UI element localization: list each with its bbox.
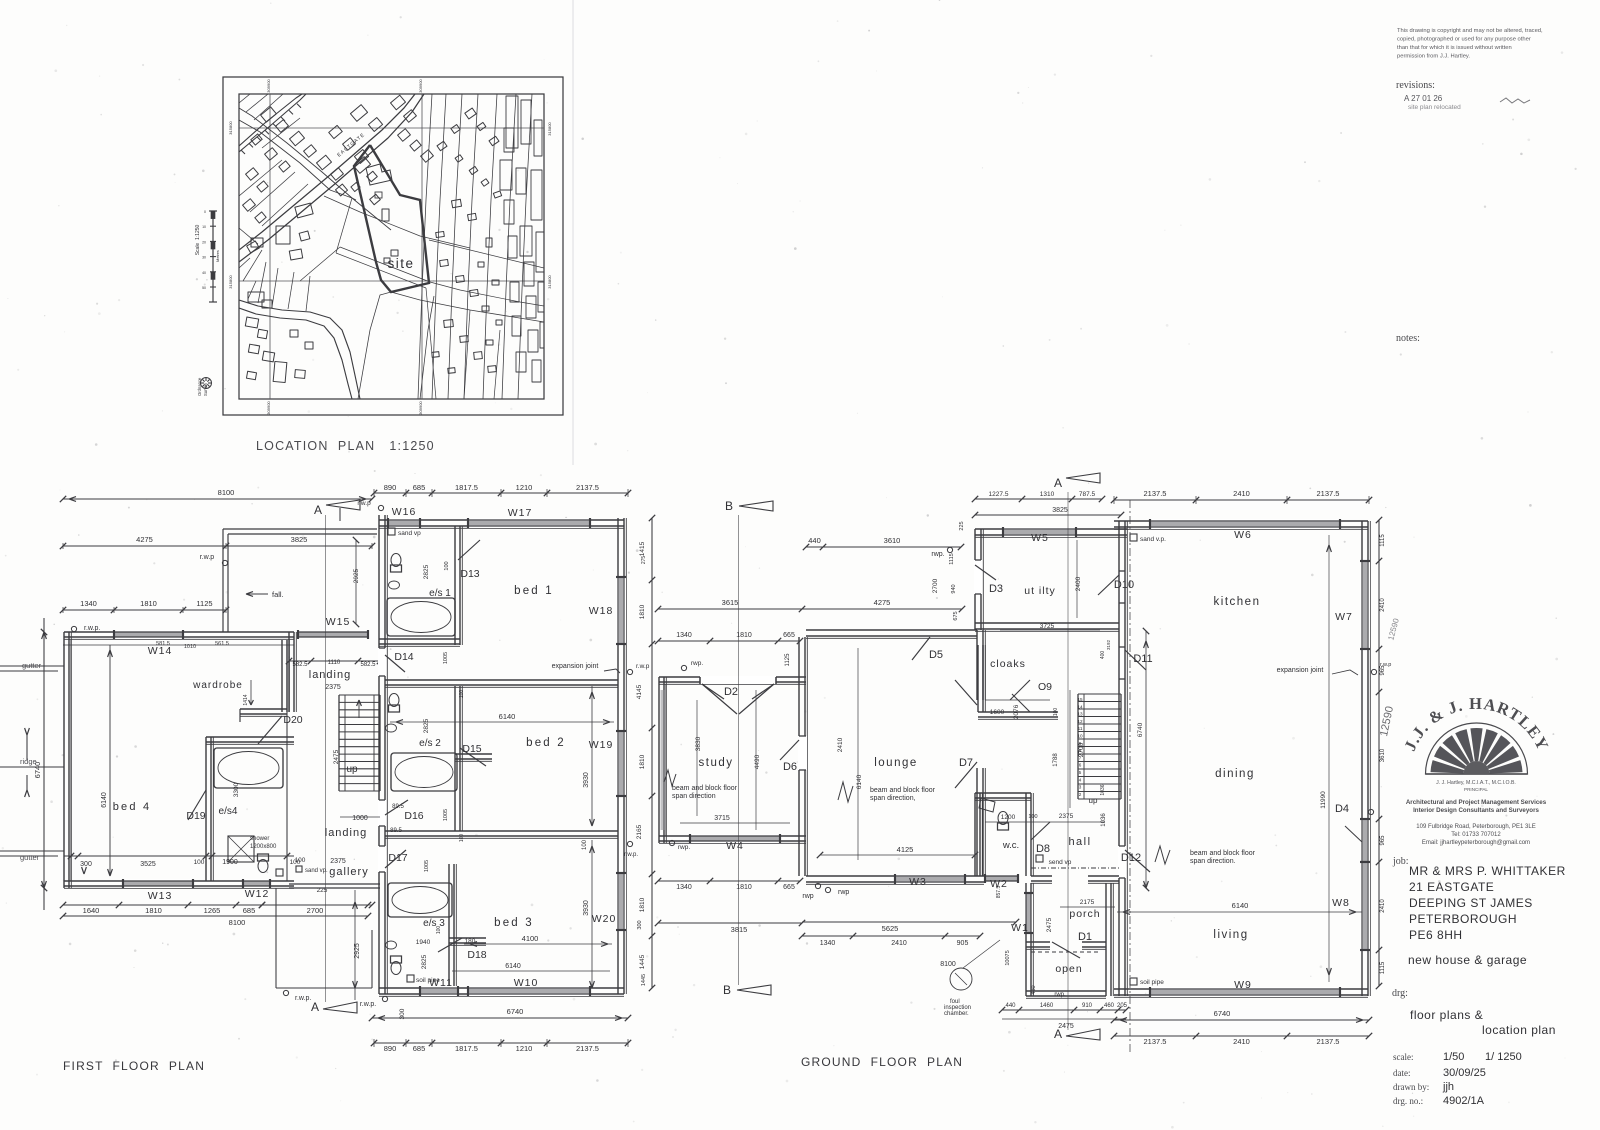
svg-text:11: 11 bbox=[1078, 726, 1083, 731]
svg-text:3725: 3725 bbox=[1040, 623, 1055, 630]
ffp door D18 bbox=[438, 938, 462, 952]
svg-text:1115: 1115 bbox=[949, 553, 955, 564]
svg-text:2925: 2925 bbox=[353, 568, 360, 583]
ffp W14 window bbox=[114, 630, 183, 639]
ffp e/s4 shower bbox=[228, 836, 254, 862]
ffp stairs up bbox=[338, 695, 340, 791]
svg-text:309900: 309900 bbox=[266, 401, 271, 415]
svg-text:2375: 2375 bbox=[1059, 813, 1074, 820]
svg-text:W20: W20 bbox=[592, 913, 617, 925]
svg-text:copied, photographed or used f: copied, photographed or used for any pur… bbox=[1397, 37, 1531, 43]
ffp dim row 1340 1810 1125 bbox=[63, 609, 226, 611]
svg-text:205: 205 bbox=[1117, 1003, 1128, 1009]
ffp fall arrow bbox=[246, 592, 253, 594]
gfp door D2 double doors bbox=[700, 676, 776, 684]
svg-text:8100: 8100 bbox=[229, 918, 246, 927]
svg-text:3930: 3930 bbox=[583, 772, 590, 788]
ffp W12 window bbox=[243, 879, 270, 888]
svg-text:W13: W13 bbox=[148, 890, 173, 902]
svg-text:100: 100 bbox=[459, 834, 465, 843]
svg-text:965: 965 bbox=[1380, 835, 1386, 846]
svg-text:r.w.p: r.w.p bbox=[1380, 662, 1391, 668]
svg-text:4490: 4490 bbox=[754, 754, 761, 769]
svg-text:3610: 3610 bbox=[884, 536, 901, 545]
location plan inner map frame bbox=[239, 94, 544, 399]
gfp door D7 bbox=[955, 680, 977, 705]
svg-text:300: 300 bbox=[399, 1008, 406, 1019]
gfp door D10 bbox=[1118, 571, 1126, 603]
ffp wall bed2/bed3 bbox=[385, 830, 618, 832]
svg-text:cloaks: cloaks bbox=[990, 658, 1026, 670]
svg-text:2825: 2825 bbox=[421, 954, 428, 969]
svg-text:B: B bbox=[725, 499, 733, 513]
gfp right wall rwp circles bbox=[1371, 669, 1376, 674]
gfp window W1 bbox=[1024, 893, 1033, 933]
ffp top dim row 8100 bbox=[63, 498, 372, 500]
ffp annex flat roof outline bbox=[222, 529, 224, 632]
svg-text:r.w.p: r.w.p bbox=[357, 500, 371, 507]
svg-text:1414: 1414 bbox=[243, 694, 249, 705]
svg-text:A 27 01 26: A 27 01 26 bbox=[1404, 94, 1443, 103]
houses mid-left cluster bbox=[295, 203, 313, 218]
svg-text:D15: D15 bbox=[462, 743, 481, 755]
ffp bottom dim 6740 bbox=[372, 1017, 628, 1019]
svg-text:2475: 2475 bbox=[1058, 1023, 1074, 1030]
svg-text:665: 665 bbox=[783, 632, 795, 639]
svg-text:new house & garage: new house & garage bbox=[1408, 953, 1527, 967]
svg-text:DEEPING ST JAMES: DEEPING ST JAMES bbox=[1409, 896, 1533, 910]
svg-text:5: 5 bbox=[1079, 770, 1082, 775]
svg-text:D6: D6 bbox=[783, 761, 797, 773]
svg-text:soil pipe: soil pipe bbox=[1140, 979, 1164, 986]
curved road bottom-left bbox=[239, 300, 360, 399]
svg-text:revisions:: revisions: bbox=[1396, 80, 1435, 91]
svg-text:6140: 6140 bbox=[101, 792, 108, 808]
svg-text:12: 12 bbox=[1077, 719, 1083, 724]
svg-text:1/50: 1/50 bbox=[1443, 1051, 1464, 1063]
ffp wardrobe walls bbox=[281, 640, 283, 712]
svg-text:1115: 1115 bbox=[1380, 534, 1386, 547]
gfp wc walls bbox=[974, 793, 976, 876]
svg-text:4100: 4100 bbox=[522, 934, 539, 943]
svg-text:site: site bbox=[387, 256, 414, 271]
ffp top dim row right 890 685 1817.5 1210 2137.5 bbox=[374, 492, 628, 494]
svg-text:13: 13 bbox=[1077, 712, 1083, 717]
svg-text:1788: 1788 bbox=[1053, 753, 1059, 767]
gfp sand vp top bbox=[1130, 534, 1137, 541]
svg-text:20: 20 bbox=[202, 240, 206, 244]
svg-text:2137.5: 2137.5 bbox=[1144, 1037, 1167, 1046]
svg-text:living: living bbox=[1213, 929, 1248, 941]
svg-text:rwp.: rwp. bbox=[678, 844, 690, 851]
svg-text:2410: 2410 bbox=[1380, 899, 1386, 913]
svg-text:4: 4 bbox=[1079, 777, 1082, 782]
svg-text:W16: W16 bbox=[392, 506, 417, 518]
svg-text:W17: W17 bbox=[508, 507, 533, 519]
svg-text:permission from J.J. Hartley.: permission from J.J. Hartley. bbox=[1397, 54, 1470, 60]
svg-text:3830: 3830 bbox=[695, 736, 702, 751]
svg-text:905: 905 bbox=[957, 940, 969, 947]
ffp void below gallery outline bbox=[275, 888, 277, 988]
svg-text:582.5: 582.5 bbox=[360, 662, 376, 668]
svg-text:sand vp: sand vp bbox=[398, 530, 421, 537]
ffp section line A-A bbox=[325, 515, 327, 1002]
svg-text:J. J. Hartley, M.C.I.A.T., M.C: J. J. Hartley, M.C.I.A.T., M.C.I.O.B. bbox=[1436, 780, 1516, 786]
svg-text:3610: 3610 bbox=[1380, 748, 1386, 762]
svg-text:6140: 6140 bbox=[499, 712, 516, 721]
ffp door D15 bbox=[460, 748, 486, 766]
svg-text:910: 910 bbox=[1082, 1003, 1093, 1009]
gfp window W3 bbox=[895, 874, 965, 884]
gfp window W5 bbox=[1003, 527, 1076, 537]
svg-text:LOCATION PLAN 1:1250: LOCATION PLAN 1:1250 bbox=[256, 439, 435, 453]
svg-text:D11: D11 bbox=[1133, 653, 1152, 665]
svg-text:W9: W9 bbox=[1234, 979, 1252, 991]
svg-text:up: up bbox=[1089, 796, 1098, 805]
svg-text:1445: 1445 bbox=[641, 974, 647, 986]
svg-text:Architectural and Project Mana: Architectural and Project Management Ser… bbox=[1406, 799, 1547, 806]
svg-text:r.w.p: r.w.p bbox=[200, 554, 215, 561]
svg-text:2410: 2410 bbox=[1233, 489, 1250, 498]
svg-text:1036: 1036 bbox=[1101, 813, 1107, 827]
svg-text:109 Fulbridge Road, Peterborou: 109 Fulbridge Road, Peterborough, PE1 3L… bbox=[1416, 824, 1535, 830]
svg-text:e/s4: e/s4 bbox=[219, 806, 238, 817]
gfp interior dim 6740 vertical bbox=[1145, 631, 1147, 888]
svg-text:100: 100 bbox=[444, 561, 450, 570]
svg-text:landing: landing bbox=[325, 827, 367, 839]
svg-text:W18: W18 bbox=[589, 605, 614, 617]
ffp door D17 bbox=[378, 846, 386, 872]
svg-text:floor plans &: floor plans & bbox=[1410, 1008, 1483, 1022]
svg-text:FIRST FLOOR PLAN: FIRST FLOOR PLAN bbox=[63, 1059, 205, 1073]
svg-text:W5: W5 bbox=[1031, 532, 1049, 544]
svg-text:2137.5: 2137.5 bbox=[576, 1044, 599, 1053]
ffp left roof-plan lines (garage edge) bbox=[0, 665, 64, 667]
svg-text:4275: 4275 bbox=[874, 598, 891, 607]
ffp sand vp near e/s1 bbox=[388, 528, 395, 535]
svg-text:1125: 1125 bbox=[785, 653, 791, 667]
gfp kitchen dining living outer walls bbox=[1118, 521, 1120, 996]
svg-text:3930: 3930 bbox=[583, 900, 590, 916]
svg-text:1445: 1445 bbox=[639, 954, 646, 969]
svg-text:1460: 1460 bbox=[1040, 1003, 1054, 1009]
svg-text:r.w.p.: r.w.p. bbox=[360, 1001, 376, 1008]
svg-text:309900: 309900 bbox=[266, 79, 271, 93]
gfp stairs bbox=[1077, 694, 1079, 799]
ffp wall bed1/bed2 bbox=[385, 679, 618, 681]
svg-text:1/ 1250: 1/ 1250 bbox=[1485, 1051, 1522, 1063]
gfp bottom dim 6740 bbox=[1114, 1019, 1369, 1021]
gfp window W4 bbox=[690, 834, 780, 843]
svg-text:bed 2: bed 2 bbox=[526, 737, 566, 749]
scan artifacts bbox=[517, 169, 519, 171]
svg-text:309900: 309900 bbox=[418, 79, 423, 93]
svg-text:PRINCIPAL: PRINCIPAL bbox=[1464, 787, 1488, 792]
svg-text:D17: D17 bbox=[388, 852, 407, 864]
svg-text:400: 400 bbox=[1100, 651, 1106, 660]
svg-text:1227.5: 1227.5 bbox=[989, 491, 1009, 498]
svg-text:1115: 1115 bbox=[1380, 961, 1386, 974]
ffp door D16 bbox=[378, 800, 386, 826]
svg-text:3825: 3825 bbox=[291, 535, 308, 544]
svg-text:D20: D20 bbox=[283, 714, 302, 726]
svg-text:2175: 2175 bbox=[1080, 899, 1095, 906]
gfp utility walls bbox=[974, 529, 976, 630]
svg-text:89.5: 89.5 bbox=[392, 804, 404, 810]
svg-text:open: open bbox=[1055, 963, 1082, 975]
svg-text:1810: 1810 bbox=[639, 897, 646, 912]
ffp e/s1 south wall bbox=[379, 638, 460, 640]
gfp door D5 bbox=[912, 637, 930, 660]
svg-text:2137.5: 2137.5 bbox=[1144, 489, 1167, 498]
svg-text:1210: 1210 bbox=[516, 1044, 533, 1053]
ffp e/s4 toilet bbox=[258, 860, 268, 873]
svg-text:8100: 8100 bbox=[218, 488, 235, 497]
location plan outer border bbox=[223, 77, 563, 415]
svg-text:bed 3: bed 3 bbox=[494, 917, 534, 929]
svg-text:bed 1: bed 1 bbox=[514, 585, 554, 597]
buildings top-middle houses bbox=[350, 105, 367, 122]
svg-text:561.5: 561.5 bbox=[215, 641, 229, 647]
svg-text:rwp.: rwp. bbox=[691, 660, 703, 667]
svg-text:D10: D10 bbox=[1114, 579, 1134, 591]
gfp study-lounge wall bbox=[798, 637, 800, 876]
svg-text:1005: 1005 bbox=[424, 860, 430, 872]
svg-text:2700: 2700 bbox=[932, 578, 939, 593]
svg-text:landing: landing bbox=[309, 669, 351, 681]
svg-text:drg. no.:: drg. no.: bbox=[1393, 1096, 1423, 1106]
gfp drainage dash-dot line bbox=[1129, 500, 1131, 1055]
svg-text:460: 460 bbox=[1104, 1003, 1115, 1009]
svg-text:581.5: 581.5 bbox=[156, 641, 170, 647]
svg-text:soil pipe: soil pipe bbox=[416, 977, 440, 984]
svg-text:expansion joint: expansion joint bbox=[552, 663, 599, 670]
site small building bbox=[384, 258, 390, 263]
ffp main block outer walls bbox=[378, 515, 380, 994]
svg-text:D4: D4 bbox=[1335, 803, 1349, 815]
svg-text:O9: O9 bbox=[1038, 681, 1052, 693]
svg-text:fall.: fall. bbox=[272, 590, 284, 599]
svg-text:15: 15 bbox=[1077, 697, 1083, 702]
svg-text:40: 40 bbox=[202, 271, 206, 275]
svg-text:1005: 1005 bbox=[443, 809, 449, 821]
svg-text:A: A bbox=[1054, 476, 1062, 490]
svg-text:rwp.: rwp. bbox=[931, 551, 944, 558]
field boundary lines centre bbox=[330, 190, 356, 200]
gfp cloaks walls bbox=[977, 645, 979, 712]
svg-text:date:: date: bbox=[1393, 1068, 1411, 1078]
plot boundary lines left of road bbox=[239, 94, 250, 103]
ffp left vertical dim 6740 bbox=[43, 618, 45, 910]
ffp window W10 bbox=[468, 986, 590, 996]
svg-text:225: 225 bbox=[959, 521, 965, 530]
gfp study outer walls bbox=[658, 677, 660, 843]
svg-text:1415: 1415 bbox=[639, 541, 646, 556]
svg-text:A: A bbox=[314, 503, 322, 517]
svg-text:1200x800: 1200x800 bbox=[250, 844, 277, 850]
railway lines top-left bbox=[239, 94, 302, 146]
ffp dim row 4275 3825 bbox=[63, 545, 372, 547]
svg-text:21 EASTGATE: 21 EASTGATE bbox=[1409, 880, 1494, 894]
ffp bottom dim row 890 685 1817.5 1210 2137.5 bbox=[374, 1042, 628, 1044]
svg-text:11990: 11990 bbox=[1320, 791, 1327, 809]
right side long plots bbox=[418, 94, 432, 399]
svg-text:6140: 6140 bbox=[856, 774, 863, 789]
svg-text:hall: hall bbox=[1068, 836, 1091, 848]
svg-text:D18: D18 bbox=[467, 949, 486, 961]
gfp door D6 bbox=[798, 736, 807, 770]
svg-text:2475: 2475 bbox=[1046, 917, 1053, 932]
svg-text:890: 890 bbox=[384, 1044, 397, 1053]
svg-text:2137.5: 2137.5 bbox=[576, 483, 599, 492]
ffp window W17 bbox=[468, 518, 590, 528]
ffp right dim column bbox=[651, 518, 653, 988]
gfp study west wall glazing bbox=[661, 690, 665, 830]
svg-text:2375: 2375 bbox=[330, 858, 346, 865]
svg-text:2400: 2400 bbox=[1075, 576, 1082, 591]
svg-text:12590: 12590 bbox=[1378, 705, 1396, 737]
svg-text:PE6 8HH: PE6 8HH bbox=[1409, 928, 1463, 942]
site boundary bold polygon bbox=[354, 145, 429, 292]
grid lines bbox=[269, 94, 271, 399]
svg-text:sand v.p.: sand v.p. bbox=[1140, 536, 1166, 543]
svg-text:12590: 12590 bbox=[1386, 617, 1401, 641]
ffp window W15 bbox=[298, 630, 368, 639]
svg-text:6740: 6740 bbox=[507, 1007, 524, 1016]
svg-text:1340: 1340 bbox=[676, 632, 692, 639]
svg-text:2410: 2410 bbox=[837, 737, 844, 752]
gfp hall south wall bbox=[1031, 875, 1052, 877]
svg-text:D13: D13 bbox=[460, 568, 479, 580]
svg-text:2700: 2700 bbox=[1078, 742, 1085, 757]
svg-text:scale:: scale: bbox=[1393, 1052, 1414, 1062]
svg-text:D1: D1 bbox=[1078, 931, 1092, 943]
svg-text:3300: 3300 bbox=[233, 782, 240, 797]
svg-text:A: A bbox=[311, 1000, 319, 1014]
svg-text:D5: D5 bbox=[929, 649, 943, 661]
svg-text:4275: 4275 bbox=[136, 535, 153, 544]
svg-text:D12: D12 bbox=[1121, 852, 1141, 864]
svg-text:PETERBOROUGH: PETERBOROUGH bbox=[1409, 912, 1517, 926]
svg-text:1125: 1125 bbox=[196, 599, 212, 608]
ffp W13 window bbox=[123, 879, 193, 888]
svg-text:3: 3 bbox=[1079, 785, 1082, 790]
right side terraced houses bbox=[506, 96, 518, 148]
svg-text:Survey: Survey bbox=[203, 382, 208, 396]
svg-text:D7: D7 bbox=[959, 757, 973, 769]
svg-text:e/s 2: e/s 2 bbox=[419, 738, 441, 749]
svg-text:1817.5: 1817.5 bbox=[455, 483, 478, 492]
svg-text:This drawing is copyright and: This drawing is copyright and may not be… bbox=[1397, 28, 1543, 34]
svg-text:r.w.p.: r.w.p. bbox=[84, 625, 100, 632]
gfp door D11 bbox=[1118, 647, 1126, 679]
svg-text:1640: 1640 bbox=[83, 906, 100, 915]
svg-text:chamber.: chamber. bbox=[944, 1011, 969, 1017]
svg-text:1810: 1810 bbox=[140, 599, 157, 608]
svg-text:drg:: drg: bbox=[1392, 988, 1408, 999]
svg-text:2076: 2076 bbox=[1013, 704, 1020, 719]
svg-text:MR & MRS P. WHITTAKER: MR & MRS P. WHITTAKER bbox=[1409, 864, 1566, 878]
svg-text:100: 100 bbox=[295, 857, 306, 864]
gfp send vp dashline bbox=[1031, 867, 1119, 869]
svg-text:10: 10 bbox=[1077, 734, 1083, 739]
svg-text:6740: 6740 bbox=[1137, 722, 1144, 737]
svg-text:shower: shower bbox=[250, 836, 269, 842]
ffp landing dims 582.5 1110 582.5 bbox=[289, 660, 380, 662]
svg-text:0: 0 bbox=[204, 210, 206, 214]
svg-text:D14: D14 bbox=[394, 651, 413, 663]
svg-text:rwp: rwp bbox=[802, 893, 813, 900]
svg-text:315800: 315800 bbox=[547, 122, 552, 136]
svg-text:440: 440 bbox=[1005, 1003, 1016, 1009]
ffp door D14 bbox=[378, 648, 386, 676]
svg-text:2410: 2410 bbox=[1380, 598, 1386, 612]
svg-text:1900: 1900 bbox=[222, 859, 238, 866]
ffp door D13 bbox=[458, 540, 480, 560]
svg-text:bed 4: bed 4 bbox=[113, 801, 152, 813]
svg-text:site plan relocated: site plan relocated bbox=[1408, 104, 1461, 111]
svg-text:2825: 2825 bbox=[423, 564, 430, 579]
svg-text:W7: W7 bbox=[1335, 611, 1353, 623]
ffp central core walls bbox=[288, 632, 290, 712]
ffp left wing outer walls bbox=[63, 632, 65, 888]
gfp open area below porch bbox=[1025, 947, 1027, 996]
svg-text:10075: 10075 bbox=[1005, 950, 1011, 965]
svg-text:1210: 1210 bbox=[516, 483, 533, 492]
svg-text:w.c.: w.c. bbox=[1002, 840, 1019, 851]
svg-text:2410: 2410 bbox=[891, 940, 907, 947]
svg-text:1940: 1940 bbox=[416, 939, 431, 946]
svg-text:Scale 1:1250: Scale 1:1250 bbox=[195, 224, 201, 255]
svg-text:3715: 3715 bbox=[714, 815, 730, 822]
ffp rwp top left bbox=[71, 626, 76, 631]
ffp bed2 interior dims bbox=[390, 721, 614, 723]
svg-text:1810: 1810 bbox=[639, 754, 646, 769]
svg-text:D2: D2 bbox=[724, 686, 738, 698]
svg-text:Ordnance: Ordnance bbox=[197, 377, 202, 396]
svg-text:gallery: gallery bbox=[329, 866, 368, 878]
svg-text:8100: 8100 bbox=[940, 961, 956, 968]
ffp e/s3 stub wall bbox=[449, 937, 486, 939]
svg-text:sand vp.: sand vp. bbox=[305, 868, 328, 874]
gfp door D4 bbox=[1360, 819, 1370, 862]
gfp bottom dim rows bbox=[658, 880, 800, 882]
gfp window W2 bbox=[985, 874, 1018, 883]
ffp left wing bottom dims bbox=[63, 904, 368, 906]
svg-text:787.5: 787.5 bbox=[1079, 491, 1096, 498]
svg-text:430: 430 bbox=[1031, 985, 1037, 994]
svg-text:drawn by:: drawn by: bbox=[1393, 1082, 1429, 1092]
svg-text:than that for which it is issu: than that for which it is issued without… bbox=[1397, 45, 1512, 51]
ffp door D19 bbox=[188, 790, 206, 820]
svg-text:1265: 1265 bbox=[204, 906, 221, 915]
svg-text:675: 675 bbox=[953, 611, 959, 620]
gfp living 6140 dim bbox=[1117, 911, 1362, 913]
svg-text:6740: 6740 bbox=[33, 762, 42, 779]
svg-text:W12: W12 bbox=[245, 888, 270, 900]
svg-text:1310: 1310 bbox=[1040, 491, 1055, 498]
svg-text:3815: 3815 bbox=[731, 925, 748, 934]
gfp section line B-B bbox=[738, 515, 740, 985]
svg-text:4125: 4125 bbox=[897, 845, 914, 854]
svg-text:10: 10 bbox=[202, 225, 206, 229]
gfp window W8 bbox=[1360, 862, 1370, 950]
svg-text:685: 685 bbox=[243, 906, 256, 915]
svg-text:14: 14 bbox=[1077, 704, 1083, 709]
svg-text:3615: 3615 bbox=[722, 598, 739, 607]
gfp study rwp circles bbox=[681, 665, 686, 670]
svg-text:2700: 2700 bbox=[307, 906, 324, 915]
